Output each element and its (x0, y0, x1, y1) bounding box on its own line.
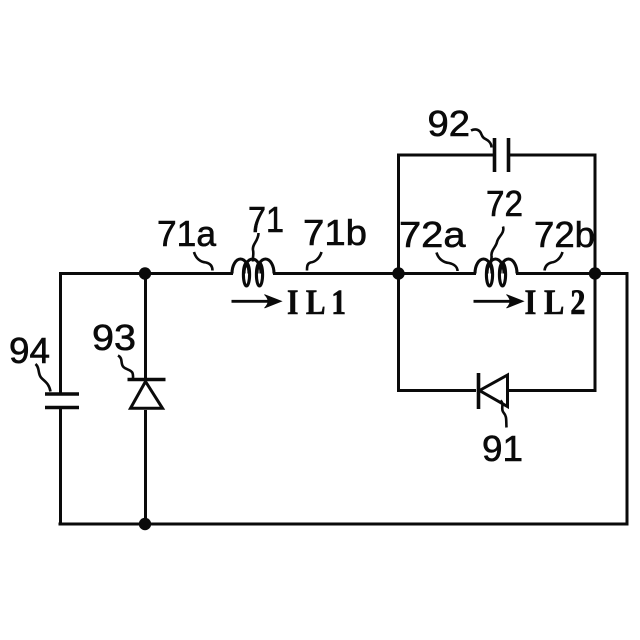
svg-text:71: 71 (248, 199, 284, 240)
svg-text:93: 93 (92, 317, 136, 358)
svg-text:72: 72 (486, 183, 523, 224)
svg-text:94: 94 (9, 330, 50, 371)
svg-text:71b: 71b (303, 212, 367, 253)
svg-text:72a: 72a (399, 214, 467, 255)
svg-text:I L 2: I L 2 (525, 282, 586, 322)
svg-text:I L 1: I L 1 (287, 282, 346, 322)
svg-text:71a: 71a (157, 213, 217, 254)
svg-text:92: 92 (428, 103, 471, 144)
svg-text:72b: 72b (534, 214, 595, 255)
svg-text:91: 91 (482, 428, 523, 469)
